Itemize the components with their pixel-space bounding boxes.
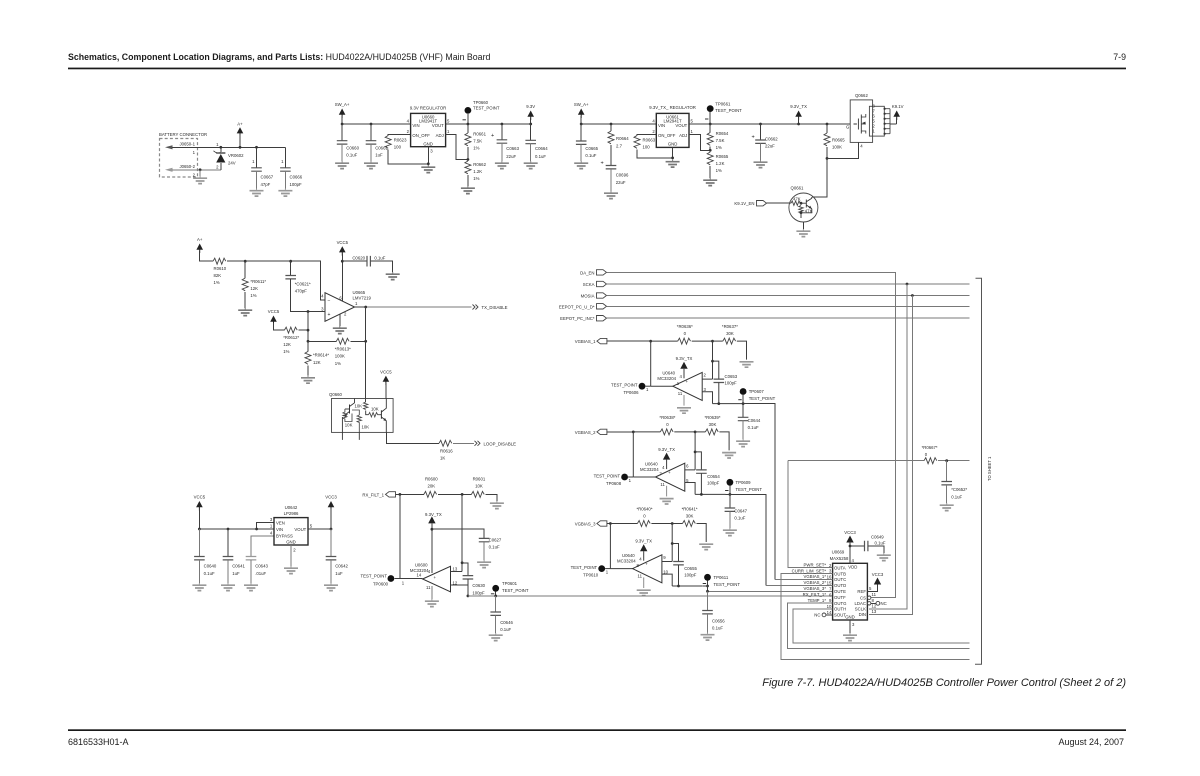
svg-text:R0662: R0662	[473, 162, 486, 167]
capacitor C0627 0.1uF	[432, 529, 502, 560]
svg-text:5: 5	[691, 118, 694, 123]
svg-text:+: +	[491, 133, 494, 139]
battery connector J0650 dashed box	[159, 132, 207, 177]
wire K9.1V out	[890, 123, 897, 125]
wire A+ row	[227, 261, 325, 300]
power arrow 9.3V	[526, 104, 535, 124]
svg-text:7.5K: 7.5K	[473, 139, 482, 144]
PAGE CHROME	[68, 52, 1126, 747]
ground R0614	[301, 376, 315, 384]
svg-text:SCLK: SCLK	[855, 607, 866, 612]
svg-text:1: 1	[629, 478, 632, 483]
svg-text:TP0610: TP0610	[583, 572, 599, 577]
svg-text:VCC5: VCC5	[380, 369, 392, 374]
power arrow VCC3 dac	[844, 530, 856, 563]
ground R0662	[461, 186, 475, 194]
power arrow 9.3V_TX rx	[425, 512, 442, 573]
svg-text:4: 4	[680, 374, 683, 379]
capacitor C0643 .01uF	[246, 536, 274, 583]
label VGBIAS_3 pin	[804, 586, 827, 591]
svg-text:R0665: R0665	[832, 138, 845, 143]
test point TP0611	[703, 574, 741, 587]
node plus input	[307, 310, 310, 313]
node C0641	[227, 528, 230, 531]
svg-text:2.7: 2.7	[616, 144, 623, 149]
svg-text:1.2K: 1.2K	[716, 161, 725, 166]
svg-text:1: 1	[355, 301, 358, 306]
resistor R0623 100	[385, 135, 428, 164]
svg-text:TP0609: TP0609	[736, 480, 752, 485]
svg-text:82K: 82K	[214, 273, 222, 278]
svg-text:100pF: 100pF	[707, 481, 720, 486]
svg-text:GND: GND	[845, 615, 855, 620]
svg-text:15: 15	[827, 581, 832, 586]
svg-text:TEST_POINT: TEST_POINT	[611, 383, 638, 388]
svg-text:TP0660: TP0660	[473, 100, 489, 105]
svg-text:LOOP_DISABLE: LOOP_DISABLE	[484, 441, 517, 446]
ground Q0661	[796, 229, 810, 237]
svg-text:1%: 1%	[473, 146, 479, 151]
svg-text:0: 0	[643, 513, 646, 518]
node SCKA branch	[906, 283, 909, 286]
capacitor C0666 100pF	[280, 147, 303, 188]
svg-text:24V: 24V	[228, 160, 236, 165]
resistor R0601 10K	[471, 477, 497, 502]
svg-text:4: 4	[270, 530, 273, 535]
wire MOSIA	[607, 295, 970, 297]
ground battery	[193, 170, 207, 184]
wire OUTH	[793, 609, 970, 643]
svg-text:9.3V_TX: 9.3V_TX	[635, 539, 652, 544]
svg-text:0.1uF: 0.1uF	[204, 571, 215, 576]
svg-text:R0610: R0610	[214, 266, 227, 271]
capacitor C0664 0.1uF	[525, 124, 548, 161]
wire ADJ	[446, 135, 468, 160]
ground C0647	[723, 528, 737, 536]
ground C0649	[877, 553, 891, 561]
node TP0607	[742, 402, 745, 405]
power arrow VCC5 b	[268, 309, 285, 330]
svg-text:U0640: U0640	[662, 371, 675, 376]
ground C0640	[192, 583, 206, 591]
opamp U0600 MC33204	[410, 563, 458, 592]
svg-text:C0655: C0655	[684, 566, 697, 571]
wire VGBIAS_2 to DAC	[726, 494, 766, 585]
svg-text:1.2K: 1.2K	[473, 169, 482, 174]
svg-text:ON_OFF: ON_OFF	[412, 133, 430, 138]
resistor R0616 1K	[439, 440, 453, 460]
svg-text:R0616: R0616	[440, 448, 453, 453]
svg-text:August 24, 2007: August 24, 2007	[1058, 737, 1124, 747]
svg-text:1: 1	[691, 129, 694, 134]
svg-text:C0627: C0627	[489, 537, 502, 542]
svg-text:100K: 100K	[335, 353, 345, 358]
svg-text:VOUT: VOUT	[432, 123, 444, 128]
node MOSIA branch	[911, 294, 914, 297]
svg-text:100pF: 100pF	[684, 573, 697, 578]
svg-text:2: 2	[216, 164, 219, 169]
wire battery row2	[172, 169, 221, 171]
svg-text:*R0639*: *R0639*	[704, 415, 720, 420]
resistor R0655 1.2K	[707, 152, 729, 178]
svg-text:MOSIA: MOSIA	[581, 294, 595, 299]
svg-text:C0656: C0656	[712, 619, 725, 624]
svg-text:OUTE: OUTE	[834, 589, 846, 594]
ground R0601	[490, 501, 504, 509]
svg-text:REF: REF	[857, 589, 866, 594]
svg-text:10K: 10K	[362, 425, 370, 430]
opamp stage U0640b VGBIAS_2	[594, 415, 737, 504]
svg-text:+: +	[686, 379, 689, 384]
svg-text:VOUT: VOUT	[675, 123, 687, 128]
svg-text:13: 13	[872, 609, 877, 614]
svg-text:11: 11	[872, 592, 877, 597]
power arrow SW_A+ 2	[574, 102, 589, 124]
svg-text:3: 3	[321, 306, 324, 311]
svg-text:12K: 12K	[283, 342, 291, 347]
svg-text:C0666: C0666	[290, 175, 303, 180]
power arrow VCC3 out	[325, 495, 337, 529]
svg-text:U0642: U0642	[285, 505, 298, 510]
svg-text:TO SHEET 1: TO SHEET 1	[987, 456, 992, 481]
svg-text:11: 11	[660, 482, 665, 487]
node VDD	[849, 545, 852, 548]
svg-text:R0664: R0664	[616, 136, 629, 141]
svg-text:TP0607: TP0607	[749, 389, 765, 394]
svg-text:9.3V: 9.3V	[526, 104, 535, 109]
svg-text:4: 4	[852, 558, 855, 563]
svg-text:VOUT: VOUT	[294, 527, 306, 532]
node C0667 tap	[255, 146, 258, 149]
wire LOOP_DISABLE	[386, 432, 474, 443]
svg-text:+: +	[645, 561, 648, 566]
regulator U0661 LM2941T	[649, 105, 696, 148]
capacitor C0660 0.1uF	[337, 124, 360, 161]
ground U0642	[284, 545, 298, 574]
svg-text:20K: 20K	[427, 484, 435, 489]
test point TP0660	[463, 100, 500, 124]
svg-text:VIN: VIN	[276, 527, 283, 532]
svg-text:6816533H01-A: 6816533H01-A	[68, 737, 129, 747]
svg-text:TEST_POINT: TEST_POINT	[360, 574, 387, 579]
node VCC5	[341, 260, 344, 263]
svg-text:0: 0	[684, 331, 687, 336]
capacitor C0644 0.1uF	[738, 404, 761, 439]
node divider	[467, 158, 470, 161]
node output	[364, 306, 367, 309]
svg-text:2: 2	[407, 129, 410, 134]
svg-text:R0600: R0600	[425, 477, 438, 482]
wire reg1 output	[446, 123, 531, 125]
svg-text:EEPOT_PC_U_D*: EEPOT_PC_U_D*	[559, 304, 595, 309]
svg-text:VDD: VDD	[848, 564, 857, 569]
svg-text:TEST_POINT: TEST_POINT	[736, 487, 763, 492]
svg-text:TP0600: TP0600	[373, 582, 389, 587]
svg-text:A+: A+	[197, 237, 203, 242]
svg-text:0.1uF: 0.1uF	[489, 544, 500, 549]
svg-text:U0665: U0665	[353, 290, 366, 295]
capacitor C0662 22uF	[752, 124, 779, 160]
svg-text:C0646: C0646	[500, 620, 513, 625]
ground C0641	[221, 583, 235, 591]
wire feedback column	[307, 312, 309, 342]
wire Q0661 collector	[812, 158, 827, 197]
svg-text:0.1uF: 0.1uF	[748, 425, 759, 430]
resistor R0654 7.5K	[707, 124, 729, 150]
svg-text:VIN: VIN	[658, 123, 665, 128]
svg-text:C0663: C0663	[506, 146, 519, 151]
svg-text:7: 7	[829, 586, 832, 591]
svg-text:A+: A+	[237, 121, 243, 126]
svg-text:DIN: DIN	[859, 612, 866, 617]
svg-text:9.3V REGULATOR: 9.3V REGULATOR	[410, 105, 446, 110]
svg-text:Q0662: Q0662	[855, 93, 869, 98]
svg-text:11: 11	[678, 391, 683, 396]
svg-text:30K: 30K	[709, 422, 717, 427]
svg-text:+: +	[752, 135, 755, 141]
power arrow A+	[237, 121, 244, 147]
wire CURR_LIM_SET	[781, 568, 970, 659]
svg-text:3: 3	[270, 517, 273, 522]
svg-text:DA_EN: DA_EN	[580, 270, 594, 275]
resistor R0667 0	[922, 445, 970, 464]
svg-text:TEST_POINT: TEST_POINT	[749, 396, 776, 401]
regulator U0660 LM2941T	[407, 105, 450, 153]
svg-text:13: 13	[453, 566, 458, 571]
ground R0655	[703, 178, 717, 186]
ground C0643	[244, 583, 258, 591]
svg-text:C0642: C0642	[335, 564, 348, 569]
svg-text:*R0613*: *R0613*	[335, 346, 351, 351]
svg-text:14: 14	[827, 610, 832, 615]
svg-text:1%: 1%	[250, 293, 256, 298]
svg-text:22uF: 22uF	[616, 180, 626, 185]
svg-text:11: 11	[638, 573, 643, 578]
svg-text:VGBIAS_3*: VGBIAS_3*	[804, 586, 827, 591]
svg-text:22uF: 22uF	[506, 154, 516, 159]
svg-text:1uF: 1uF	[375, 153, 383, 158]
resistor R0663 100	[634, 135, 673, 158]
ground C0652	[940, 503, 954, 511]
svg-text:TEST_POINT: TEST_POINT	[715, 108, 742, 113]
capacitor C0647 0.1uF	[725, 494, 748, 528]
svg-text:TEST_POINT: TEST_POINT	[714, 582, 741, 587]
node C0664	[529, 123, 532, 126]
svg-text:VEN: VEN	[276, 520, 285, 525]
svg-text:16: 16	[827, 575, 832, 580]
svg-text:4: 4	[662, 465, 665, 470]
svg-text:C0641: C0641	[232, 564, 245, 569]
svg-text:VCC5: VCC5	[194, 495, 206, 500]
svg-text:470pF: 470pF	[295, 289, 308, 294]
svg-text:C0649: C0649	[871, 535, 884, 540]
svg-text:BYPASS: BYPASS	[276, 533, 293, 538]
svg-text:10K: 10K	[475, 484, 483, 489]
svg-text:OUTF: OUTF	[834, 595, 846, 600]
SECTION-A battery connector	[159, 121, 303, 196]
ground U0660	[421, 147, 435, 173]
svg-text:PWR_SET*: PWR_SET*	[804, 562, 827, 567]
svg-text:10: 10	[827, 604, 832, 609]
svg-text:R0661: R0661	[473, 132, 486, 137]
svg-text:Q0660: Q0660	[329, 392, 343, 397]
capacitor C0642 1uF	[326, 529, 349, 583]
svg-text:C0643: C0643	[255, 564, 268, 569]
svg-text:J0650-1: J0650-1	[179, 141, 195, 146]
svg-text:Figure 7-7. HUD4022A/HUD4025B: Figure 7-7. HUD4022A/HUD4025B Controller…	[762, 677, 1126, 689]
svg-text:9.3V_TX: 9.3V_TX	[425, 512, 442, 517]
svg-text:GND: GND	[668, 142, 678, 147]
node C0652	[945, 459, 948, 462]
ground C0667	[250, 189, 264, 197]
svg-text:100pF: 100pF	[725, 381, 738, 386]
svg-text:0.1uF: 0.1uF	[500, 627, 511, 632]
svg-text:1: 1	[270, 523, 273, 528]
svg-text:R0623: R0623	[394, 138, 407, 143]
svg-text:7.5K: 7.5K	[716, 138, 725, 143]
svg-text:*R0638*: *R0638*	[659, 415, 675, 420]
capacitor C0666b 22uF	[601, 161, 629, 192]
svg-text:SCKA: SCKA	[583, 282, 595, 287]
wire PWR_SET	[788, 461, 924, 568]
svg-text:10: 10	[663, 570, 668, 575]
resistor R0662 1.2K	[465, 161, 487, 186]
svg-text:TX_DISABLE: TX_DISABLE	[482, 305, 508, 310]
test point TP0601	[491, 581, 529, 596]
pin J0650-1 arrow	[165, 141, 196, 155]
wire REF VCC3	[867, 572, 883, 592]
svg-text:CS: CS	[860, 595, 866, 600]
capacitor C0665 0.1uF	[576, 124, 599, 161]
wire U0642 output	[308, 528, 331, 530]
svg-text:1: 1	[252, 159, 255, 164]
node rx out	[467, 595, 470, 598]
dac U0669 MAX5258	[827, 550, 877, 628]
svg-text:+: +	[668, 470, 671, 475]
wire VGBIAS_1 to DAC	[743, 404, 775, 580]
ground C0660	[335, 161, 349, 169]
transistor pack Q0660	[329, 392, 393, 440]
wire plus input	[308, 311, 325, 313]
svg-text:TEMP_1*: TEMP_1*	[808, 598, 827, 603]
node VCC5 C0640	[198, 528, 201, 531]
svg-text:5: 5	[869, 586, 872, 591]
wire SCKA	[607, 283, 970, 285]
opamp stage U0640c VGBIAS_3	[571, 506, 714, 595]
svg-text:C0667: C0667	[261, 175, 274, 180]
svg-text:0: 0	[925, 452, 928, 457]
svg-text:*C0652*: *C0652*	[951, 487, 967, 492]
pin CS bubble	[868, 596, 871, 599]
svg-text:C0660: C0660	[346, 146, 359, 151]
svg-text:4: 4	[860, 144, 863, 149]
svg-text:12K: 12K	[313, 360, 321, 365]
svg-text:GND: GND	[286, 540, 296, 545]
ground C0662	[754, 160, 768, 168]
svg-text:U0640: U0640	[645, 461, 658, 466]
ground C0620	[386, 272, 400, 280]
svg-text:*R0612*: *R0612*	[283, 335, 299, 340]
svg-text:100pF: 100pF	[290, 182, 303, 187]
svg-text:C0654: C0654	[707, 474, 720, 479]
ground C0644	[736, 439, 750, 447]
node C0627 tee	[431, 528, 434, 531]
node fb tee rx	[461, 561, 464, 564]
SECTION-M bracket	[975, 278, 992, 664]
svg-text:VCC3: VCC3	[325, 495, 337, 500]
regulator U0642 LP2986	[270, 505, 313, 553]
pin J0650-2 arrow	[165, 164, 196, 178]
svg-text:*R0637*: *R0637*	[722, 324, 738, 329]
svg-text:R0654: R0654	[716, 131, 729, 136]
svg-text:30K: 30K	[726, 331, 734, 336]
svg-text:C0630: C0630	[472, 583, 485, 588]
svg-text:U0600: U0600	[415, 563, 428, 568]
svg-text:BATTERY CONNECTOR: BATTERY CONNECTOR	[159, 132, 207, 137]
svg-text:VR0602: VR0602	[228, 153, 244, 158]
SECTION-B regulator1	[335, 100, 549, 194]
wire output to Q0660	[365, 307, 367, 402]
svg-text:100K: 100K	[832, 145, 842, 150]
capacitor C0649 0.1uF	[850, 535, 886, 554]
wire out stub rx	[451, 584, 468, 586]
wire VGBIAS_1 pin	[775, 574, 833, 579]
svg-text:30K: 30K	[686, 513, 694, 518]
svg-text:10K: 10K	[355, 404, 363, 409]
SECTION-D opamp U0665	[196, 237, 516, 460]
svg-text:0: 0	[666, 422, 669, 427]
svg-text:TP0606: TP0606	[623, 390, 639, 395]
svg-text:OUTB: OUTB	[834, 571, 846, 576]
svg-text:TP0608: TP0608	[606, 481, 622, 486]
svg-text:4: 4	[652, 118, 655, 123]
node C0660	[341, 123, 344, 126]
SECTION-K dac	[766, 445, 970, 659]
svg-text:47K: 47K	[793, 197, 801, 202]
svg-text:R0663: R0663	[643, 138, 656, 143]
transistor Q0662 pmos pack	[846, 93, 873, 142]
wire reg2 output	[689, 123, 850, 125]
svg-text:1%: 1%	[335, 361, 341, 366]
power arrow 9.3V_TX	[790, 104, 807, 124]
svg-text:K9.1V: K9.1V	[892, 104, 904, 109]
svg-text:VIN: VIN	[412, 123, 419, 128]
opamp stage U0640a VGBIAS_1	[611, 324, 754, 413]
svg-text:C0665: C0665	[585, 146, 598, 151]
input tag VGBIAS_3	[575, 521, 611, 527]
svg-text:5: 5	[447, 118, 450, 123]
wire U0642 input	[199, 528, 274, 530]
resistor R0665 100K	[824, 124, 845, 158]
node TP0661	[709, 123, 712, 126]
test point TP0600	[360, 574, 404, 587]
svg-text:C0662: C0662	[765, 137, 778, 142]
svg-text:47K: 47K	[805, 209, 813, 214]
power arrow VCC5	[337, 240, 349, 301]
svg-text:MAX5258: MAX5258	[830, 556, 849, 561]
ground C0656	[701, 633, 715, 641]
power arrow A+ 2	[196, 237, 213, 261]
svg-text:TP0611: TP0611	[714, 575, 729, 580]
ground U0661	[666, 147, 680, 167]
svg-text:Schematics, Component Location: Schematics, Component Location Diagrams,…	[68, 52, 490, 62]
capacitor C0621 470pF	[285, 261, 311, 311]
input tag RX_FILT_1	[362, 492, 423, 498]
node VCC3	[330, 528, 333, 531]
pin LDAC bubble nc	[868, 601, 887, 606]
input tag EEPOT_PC_INC	[560, 316, 606, 322]
svg-text:2: 2	[293, 548, 296, 553]
